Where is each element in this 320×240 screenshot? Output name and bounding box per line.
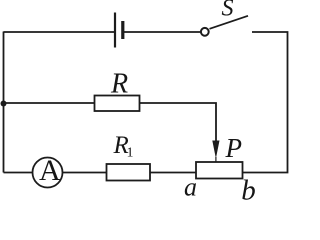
svg-text:1: 1 [127,146,134,161]
svg-text:S: S [222,0,234,22]
svg-text:b: b [241,174,256,200]
svg-text:R: R [110,69,128,100]
svg-text:a: a [184,173,197,201]
svg-text:A: A [39,154,61,187]
svg-text:P: P [225,133,243,163]
